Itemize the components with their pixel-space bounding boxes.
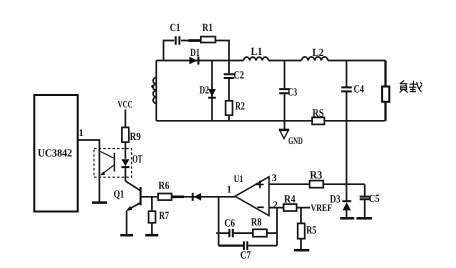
wire: snubber top branch left riser [164,41,175,61]
svg-text:OT: OT [132,153,142,165]
wire: VCC to R9 [124,110,126,128]
transistor Q1 [140,187,142,205]
svg-text:D2: D2 [200,84,210,96]
svg-text:R2: R2 [235,101,245,113]
capacitor C2 [228,61,230,101]
capacitor C6 [229,229,232,237]
diode D3 [346,184,348,200]
svg-text:R6: R6 [158,180,169,192]
wire: D1 horizontal line [156,60,229,62]
svg-text:C2: C2 [234,70,245,82]
svg-text:1: 1 [227,184,232,195]
capacitor C5 [364,184,366,218]
resistor RS (current sense in rail) [312,117,324,124]
svg-text:C5: C5 [369,193,380,205]
svg-text:D1: D1 [190,47,200,59]
svg-text:3: 3 [272,173,277,184]
svg-text:U1: U1 [234,174,244,185]
svg-text:R3: R3 [310,169,323,181]
wire: C1 to R1 [181,40,201,42]
svg-text:R8: R8 [251,216,262,228]
wire: L2 to load corner [328,60,386,62]
capacitor C3 [284,61,286,130]
svg-text:R9: R9 [130,131,141,143]
diode (feedback, unlabeled) [192,193,194,201]
svg-text:C4: C4 [354,84,365,96]
wire: UC3842 pin 1 to opto [78,140,99,203]
resistor R6 [158,194,172,201]
inductor L2 [302,57,328,61]
svg-text:VCC: VCC [118,100,133,111]
load resistor box [384,61,386,121]
transformer secondary winding [155,61,157,121]
wire: bottom output rail [156,120,385,122]
svg-text:VREF: VREF [311,203,333,214]
diode D2 [211,61,213,121]
diode D1 [189,57,197,64]
svg-text:L1: L1 [251,46,262,58]
svg-text:1: 1 [79,128,84,139]
inductor L1 [244,57,269,60]
svg-text:C3: C3 [288,86,298,98]
opto LED [121,159,129,166]
label 负载 (load) [400,81,422,92]
resistor R9 [122,127,129,142]
capacitor C1 [176,36,180,45]
wire: L1 to L2 [269,60,302,62]
svg-text:C1: C1 [170,22,181,34]
resistor R3 [310,181,324,188]
ground GND symbol [279,129,289,132]
wire: pin 2 line [269,207,310,209]
wire: R1 right to D1 line [215,41,229,61]
wire: branch riser to pin 2 [276,208,278,246]
wire: op-amp output line to Q1 [141,196,235,198]
svg-text:RS: RS [312,107,324,119]
wire: compensation node riser [218,197,220,246]
svg-text:C6: C6 [224,217,235,229]
wire: C6/R8 branch [216,232,277,234]
svg-text:L2: L2 [312,47,324,59]
resistor R4 [284,204,297,211]
svg-text:R4: R4 [284,193,296,205]
wire: Q1 emitter to ground [126,210,128,235]
wire: pin 3 line [269,183,365,185]
svg-text:C7: C7 [240,249,251,261]
svg-text:R5: R5 [306,225,316,237]
svg-text:R7: R7 [159,210,169,222]
resistor R1 [201,37,216,43]
IC UC3842 [34,95,77,212]
wire: R9 to LED [124,142,126,159]
svg-text:Q1: Q1 [114,188,125,200]
op-amp U1 [235,177,269,216]
resistor R2 [226,101,233,115]
capacitor C4 [346,61,348,185]
capacitor C7 [244,241,247,250]
svg-text:GND: GND [288,136,303,147]
svg-text:UC3842: UC3842 [38,147,73,159]
resistor R7 [151,197,153,235]
wire: main line to L1 [229,60,244,62]
opto phototransistor [113,153,115,172]
wire: C7 branch [219,244,243,246]
resistor R5 [300,208,302,251]
svg-text:R1: R1 [202,22,213,34]
resistor R8 [253,229,267,236]
optocoupler OT dashed box [94,149,132,178]
